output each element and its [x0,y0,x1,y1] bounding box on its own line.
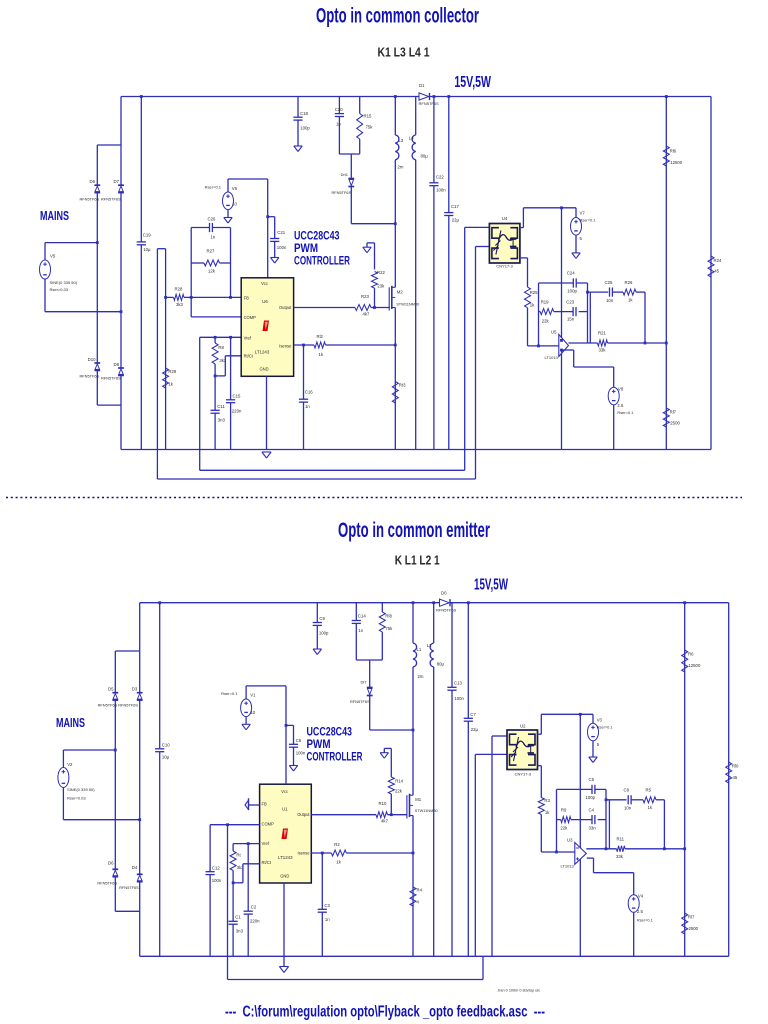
IC U1 UCC28C43 / LT1243 [260,784,312,883]
wire opto return B [157,478,475,480]
svg-text:80µ: 80µ [421,154,429,159]
wire [366,243,368,247]
diode D6 [94,185,100,192]
junction [447,95,450,98]
svg-text:C26: C26 [208,217,216,222]
resistor R22 [372,272,378,289]
resistor R5 [643,797,656,803]
diode D3 [137,693,143,700]
wire [114,651,116,693]
svg-text:V3: V3 [597,718,603,723]
ground (main, bottom) [279,967,288,973]
wire [491,736,493,956]
svg-text:Rser=0.03: Rser=0.03 [67,796,86,801]
wire [120,145,122,185]
junction [579,713,582,716]
svg-text:Rser=0.1: Rser=0.1 [637,918,653,923]
wire [120,312,122,368]
wire [224,356,226,376]
svg-text:RFN5TF6S: RFN5TF6S [80,196,100,201]
wire [351,223,395,225]
junction [190,296,193,299]
wire [114,700,116,750]
svg-text:K1 L3 L4 1: K1 L3 L4 1 [378,45,430,60]
voltage source V2 [58,768,69,788]
svg-text:R8: R8 [218,345,224,350]
svg-text:U6: U6 [262,299,268,304]
capacitor C15 [226,400,235,403]
wire [346,852,413,854]
wire [156,450,158,480]
capacitor C24 [573,278,576,287]
wire 5V node [541,713,593,715]
wire [45,311,121,313]
wire [297,120,299,146]
resistor R4 [410,887,416,906]
wire [274,217,276,239]
svg-text:10: 10 [232,202,237,207]
resistor Rl6 [663,146,669,166]
wire [574,366,614,368]
wire [390,794,392,815]
wire [539,311,541,313]
svg-text:C16: C16 [305,390,313,395]
svg-text:Rser=0.03: Rser=0.03 [50,287,69,292]
svg-text:C13: C13 [454,681,462,686]
wire [374,243,376,270]
capacitor C26 [209,223,212,232]
wire [540,815,542,853]
wire [369,660,371,688]
svg-text:RFN5TF6S: RFN5TF6S [97,881,117,886]
ground [242,724,250,730]
capacitor C21 [270,238,279,241]
wire inv input [541,851,575,853]
svg-text:L3: L3 [399,138,404,143]
resistor R6 [682,650,688,672]
svg-text:R26: R26 [625,280,633,285]
wire [191,227,230,229]
svg-text:R19: R19 [541,300,549,305]
svg-text:5: 5 [597,742,600,747]
svg-text:RFN5TF6S: RFN5TF6S [101,376,121,381]
resistor R28 [174,294,185,300]
wire [390,748,392,777]
svg-text:Vref: Vref [262,841,270,846]
junction [683,847,686,850]
wire snubber [370,729,413,731]
wire [339,153,359,155]
svg-text:Rl0: Rl0 [732,764,739,769]
op-amp U3 [575,843,587,865]
svg-text:L4: L4 [409,136,414,141]
svg-text:RFN5TF6S: RFN5TF6S [350,699,370,704]
svg-text:LT1243: LT1243 [278,855,293,860]
capacitor C25 [609,288,612,297]
wire load [710,97,712,450]
junction [555,851,558,854]
wire [528,345,559,347]
wire [191,262,204,264]
capacitor C10 [155,749,164,752]
wire [381,603,383,612]
junction [586,291,589,294]
wire [246,685,286,687]
junction [412,729,415,732]
svg-text:C14: C14 [358,614,366,619]
svg-text:2m: 2m [398,165,404,170]
svg-text:U2: U2 [520,723,526,728]
wire [120,375,122,449]
diode D10 [94,363,100,370]
wire [274,241,276,257]
svg-text:100n: 100n [436,188,446,193]
svg-text:R29: R29 [168,369,176,374]
svg-text:4: 4 [417,900,420,905]
svg-text:1k: 1k [628,297,633,302]
svg-text:L2: L2 [427,643,432,648]
wire [139,700,141,820]
wire [44,279,46,312]
junction [138,818,141,821]
capacitor C16 [299,399,308,402]
svg-text:Vref: Vref [244,335,252,340]
inductor L1 [413,643,417,667]
junction [467,601,470,604]
junction [390,813,393,816]
svg-text:C22: C22 [436,175,444,180]
wire [156,249,158,450]
svg-text:1k: 1k [336,860,341,865]
wire 5V node [523,207,576,209]
wire [613,291,623,293]
wire [227,210,229,218]
wire [114,750,116,869]
svg-text:--- C:\forum\regulation opto\: --- C:\forum\regulation opto\Flyback _op… [225,1004,545,1021]
wire [554,311,573,313]
wire [359,97,361,114]
diode D8 [118,368,124,375]
optocoupler U2 [507,730,538,770]
wire [184,296,241,298]
svg-text:Isense: Isense [279,343,292,348]
svg-text:K L1 L2 1: K L1 L2 1 [395,553,440,568]
svg-text:SINE(0 339 50): SINE(0 339 50) [67,787,95,792]
svg-text:R23: R23 [361,294,369,299]
wire Rt/Ct [225,355,241,357]
svg-text:Rt: Rt [236,853,241,858]
resistor R2 [331,850,346,856]
wire [592,714,594,723]
wire [297,97,299,118]
wire [475,247,477,480]
svg-text:V4: V4 [638,894,644,899]
svg-text:C1: C1 [235,915,241,920]
svg-text:CONTROLLER: CONTROLLER [294,256,350,268]
svg-text:C25: C25 [605,280,613,285]
wire ground bus [121,449,711,451]
wire [321,853,323,956]
svg-text:V2: V2 [67,762,73,767]
wire [140,97,142,450]
wire comp top [557,788,607,790]
svg-text:R2: R2 [334,842,340,847]
svg-text:R5: R5 [646,788,652,793]
voltage source V7 [571,218,582,236]
wire [433,667,435,956]
wire [120,97,122,146]
transistor M2 [389,286,395,311]
wire [464,227,466,470]
inductor L2 [430,643,434,667]
voltage source V8 [608,387,619,405]
junction [663,847,666,850]
wire [114,877,116,912]
wire [467,603,469,957]
wire [115,650,139,652]
svg-text:100p: 100p [567,289,577,294]
wire [381,632,383,660]
svg-text:UCC28C43: UCC28C43 [307,727,353,739]
wire [220,262,231,264]
svg-text:Vcc: Vcc [281,789,288,794]
wire [433,97,435,450]
voltage source V6 [223,192,234,210]
capacitor C8 [628,795,631,804]
wire [96,145,98,185]
wire [303,345,305,450]
wire [374,288,376,307]
transistor M1 [407,794,413,819]
wire [538,765,542,767]
wire [96,193,98,243]
wire [96,243,98,363]
resistor Rl7 [682,913,688,934]
svg-text:15V,5W: 15V,5W [454,74,491,91]
junction [644,342,647,345]
wire branch drop [589,292,591,343]
wire Isense [311,852,331,854]
wire [594,872,634,874]
wire [579,311,588,313]
svg-text:PWM: PWM [294,243,318,255]
wire [139,882,141,957]
wire [157,248,165,250]
svg-text:33k: 33k [599,348,607,353]
svg-text:1k: 1k [530,303,535,308]
svg-text:22µ: 22µ [471,727,479,732]
svg-text:33k: 33k [616,854,624,859]
wire [190,263,192,297]
svg-text:COMP: COMP [244,315,257,320]
svg-text:12k: 12k [208,269,216,274]
wire [593,858,595,873]
wire [165,249,167,450]
optocoupler U4 [489,224,520,264]
resistor Rl2 [314,342,326,348]
wire [139,603,141,651]
diode D7 [118,185,124,192]
wire [415,97,417,135]
svg-text:D6: D6 [90,179,96,184]
wire [293,747,295,765]
wire [338,97,340,114]
ground [294,146,302,152]
ground (gate divider) [380,753,388,759]
svg-text:R21: R21 [598,331,606,336]
resistor R24 [708,256,714,277]
junction [226,823,229,826]
svg-text:Rl7: Rl7 [688,915,695,920]
voltage source V3 [588,723,599,741]
ground [224,218,232,224]
svg-text:RFN5TF6S: RFN5TF6S [98,702,118,707]
junction [120,310,123,313]
wire Rt/Ct [243,863,260,865]
wire COMP [191,316,241,318]
resistor Rl0 [726,762,732,783]
wire [159,603,161,957]
inductor L4 [412,135,416,160]
svg-text:C2: C2 [251,905,257,910]
wire [242,864,244,883]
svg-text:1n: 1n [211,234,216,239]
wire V+ rail [140,602,440,604]
wire opamp out [569,342,598,344]
svg-text:Dl7: Dl7 [360,680,367,685]
wire [230,228,232,264]
svg-text:10n: 10n [606,298,614,303]
svg-text:RFN5TF6S: RFN5TF6S [332,190,352,195]
junction [96,241,99,244]
capacitor C17 [444,212,453,215]
svg-text:R27: R27 [207,249,215,254]
capacitor C18 [293,117,302,120]
svg-text:R11: R11 [617,837,625,842]
wire [632,799,643,801]
wire branch drop [608,800,610,849]
svg-text:Output: Output [279,305,292,310]
svg-text:3k3: 3k3 [176,302,184,307]
junction [433,95,436,98]
wire [606,799,627,801]
wire ground bus [140,955,729,957]
wire [230,337,232,449]
svg-text:75k: 75k [385,626,393,631]
wire [62,750,64,768]
diode D0 [440,599,451,606]
wire load divider [665,97,667,450]
wire [527,258,529,287]
svg-text:75k: 75k [366,125,374,130]
junction [158,601,161,604]
svg-text:22k: 22k [395,789,403,794]
junction [164,296,167,299]
capacitor C2 [244,911,253,914]
wire LED anode [465,226,490,228]
svg-text:R6: R6 [688,652,694,657]
wire [338,117,340,154]
svg-text:10µ: 10µ [162,755,170,760]
svg-text:100p: 100p [586,795,596,800]
svg-text:CNY17-3: CNY17-3 [496,264,513,269]
resistor Rt [230,851,236,871]
junction [560,339,563,342]
svg-text:5: 5 [580,236,583,241]
svg-text:Rl6: Rl6 [670,149,677,154]
svg-text:100n: 100n [296,751,306,756]
junction [394,222,397,225]
svg-text:3n3: 3n3 [218,418,226,423]
wire [350,154,352,179]
wire [575,208,577,218]
capacitor C13 [447,687,456,690]
svg-text:22k: 22k [560,826,568,831]
svg-text:Rl7: Rl7 [670,410,677,415]
wire Vref [200,336,242,338]
diode Drl1 [348,179,354,187]
wire COMP [210,824,260,826]
wire [605,789,607,848]
wire V+ rail [121,96,419,98]
junction [229,296,232,299]
svg-text:D8: D8 [114,362,120,367]
junction [412,852,415,855]
resistor R15 [357,114,363,140]
resistor R29 [163,368,169,388]
svg-text:C7: C7 [470,712,476,717]
wire [562,349,574,351]
wire [247,844,249,957]
wire [214,376,216,450]
svg-text:GND: GND [280,874,289,879]
wire [633,912,635,956]
wire [367,242,375,244]
wire [316,603,318,649]
svg-text:R25: R25 [530,290,538,295]
svg-text:15V,5W: 15V,5W [474,577,508,594]
svg-text:R10: R10 [379,801,387,806]
svg-text:Rt/Ct: Rt/Ct [262,860,272,865]
svg-text:MAINS: MAINS [56,715,85,730]
svg-text:2500: 2500 [670,421,680,426]
svg-text:2500: 2500 [689,926,699,931]
svg-text:RFN5TF6S: RFN5TF6S [80,374,100,379]
resistor R14 [388,777,394,794]
svg-text:Rt3: Rt3 [399,383,406,388]
svg-text:C15: C15 [233,393,241,398]
svg-text:U1: U1 [282,806,288,811]
wire [286,724,294,726]
resistor R27 [204,260,220,266]
wire GND pin [266,376,268,449]
svg-text:100n: 100n [277,245,287,250]
svg-text:R24: R24 [714,258,722,263]
svg-text:15n: 15n [567,317,575,322]
svg-text:C9: C9 [319,616,325,621]
wire [97,404,121,406]
ground (gate divider) [363,247,371,253]
wire [383,748,385,752]
svg-text:D1: D1 [419,83,425,88]
wire [522,208,524,228]
svg-text:R22: R22 [377,270,385,275]
wire [557,819,561,821]
svg-text:C6: C6 [296,738,302,743]
wire drain [412,667,414,795]
resistor R11 [617,846,626,852]
svg-text:220n: 220n [250,919,260,924]
